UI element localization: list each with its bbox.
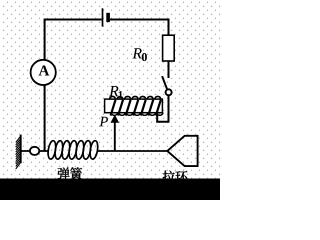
slider stem <box>114 122 116 152</box>
wall hatching <box>16 136 21 169</box>
ammeter letter A <box>39 65 50 75</box>
spring coils <box>47 140 99 159</box>
bottom black bar <box>0 179 220 201</box>
label 拉环 (pull ring) <box>163 171 188 183</box>
label 弹簧 (spring) <box>57 167 82 179</box>
switch blade (open) <box>162 76 167 90</box>
R1 winding diagonal strokes <box>111 100 161 116</box>
R1 winding top arcs <box>109 96 161 99</box>
battery positive plate (long thin) <box>102 8 104 26</box>
ammeter circle <box>31 60 56 85</box>
rod spring to pull ring <box>97 150 167 152</box>
wire battery to top-right corner down to R0 <box>110 20 169 36</box>
wire from battery positive terminal left and down to ammeter <box>45 20 102 60</box>
wall anchor vertical <box>20 135 22 164</box>
battery negative plate (short thick) <box>106 13 110 22</box>
wire switch down-left-up into rheostat right end <box>157 95 168 121</box>
pull ring <box>167 136 197 166</box>
label R0 <box>132 48 146 61</box>
resistor R0 <box>163 35 175 61</box>
switch terminal circle <box>166 89 172 95</box>
slider arrow head <box>111 115 120 123</box>
label R1 <box>109 86 123 98</box>
wire R0 to switch <box>168 61 170 78</box>
R1 winding bottom arcs <box>111 113 163 116</box>
wire ammeter down to rod junction <box>44 85 46 151</box>
rod wall to spring <box>21 150 49 152</box>
label P <box>99 117 108 126</box>
rheostat R1 core box <box>105 99 163 113</box>
hook eyelet circle <box>30 147 39 155</box>
